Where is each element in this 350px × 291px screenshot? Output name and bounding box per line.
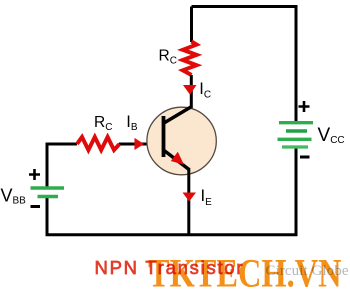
battery V_BB plate long (31, 186, 65, 189)
minus sign V_CC (300, 156, 310, 159)
wire right vertical lower (295, 148, 298, 237)
plus sign V_BB (29, 169, 40, 180)
svg-text:IE: IE (201, 187, 213, 208)
battery V_CC plate 1 long (279, 121, 313, 124)
arrow I_E (red, down) (183, 193, 197, 202)
battery V_BB plate short (38, 195, 59, 198)
svg-text:VBB: VBB (1, 186, 27, 207)
arrow I_B (red, right) (135, 138, 145, 150)
svg-text:RC: RC (94, 114, 112, 133)
transistor Q1 base bar (162, 116, 166, 157)
svg-text:IB: IB (126, 113, 138, 133)
transistor Q1 emitter arrow (red) (171, 152, 184, 165)
wire left vertical lower (46, 197, 49, 236)
wire emitter vertical (187, 168, 190, 236)
svg-text:TKTECH.VN: TKTECH.VN (148, 250, 342, 291)
wire top horizontal (192, 5, 297, 8)
wire right vertical upper (295, 5, 298, 122)
wire left vertical upper (46, 144, 49, 189)
wire base horizontal (46, 143, 78, 146)
svg-text:RC: RC (159, 48, 177, 67)
resistor R1 (collector, vertical zigzag) (183, 42, 197, 76)
arrow I_C (red, down) (183, 85, 197, 95)
wire bottom horizontal (46, 233, 298, 236)
svg-text:VCC: VCC (318, 125, 345, 146)
svg-text:IC: IC (199, 80, 211, 100)
transistor Q1 emitter slant (164, 150, 190, 170)
battery V_CC plate 3 long (278, 138, 312, 141)
wire base to transistor (119, 143, 164, 146)
wire collector vertical lower (190, 75, 193, 109)
wire collector vertical upper (190, 7, 193, 43)
transistor Q1 collector slant (164, 107, 191, 123)
plus sign V_CC (299, 101, 310, 112)
battery V_CC plate 4 short (282, 145, 308, 148)
battery V_CC plate 2 short (286, 129, 307, 132)
minus sign V_BB (31, 205, 41, 208)
resistor R2 (base, horizontal zigzag) (77, 137, 120, 150)
transistor Q1 circle (147, 107, 216, 175)
